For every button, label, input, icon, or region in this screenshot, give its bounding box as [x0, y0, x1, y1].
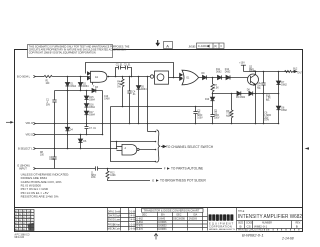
svg-text:B: B: [296, 225, 298, 229]
svg-text:l: l: [231, 216, 232, 222]
svg-text:1N3653: 1N3653: [158, 226, 167, 228]
svg-text:CORPORATION: CORPORATION: [209, 225, 232, 229]
svg-text:TO CHANNEL SELECT SWITCH: TO CHANNEL SELECT SWITCH: [166, 145, 214, 149]
svg-text:D-670: D-670: [137, 226, 144, 228]
svg-text:(2): (2): [214, 44, 217, 48]
svg-text:COPYRIGHT 1968 BY DIGITAL EQUI: COPYRIGHT 1968 BY DIGITAL EQUIPMENT CORP…: [29, 51, 96, 54]
svg-text:J.Smith: J.Smith: [113, 211, 121, 214]
svg-text:INPUT: INPUT: [19, 167, 27, 171]
svg-text:10%: 10%: [264, 120, 269, 122]
svg-text:i: i: [213, 216, 214, 222]
svg-text:i: i: [220, 216, 221, 222]
svg-text:EIA: EIA: [161, 214, 165, 217]
svg-text:2-5-68: 2-5-68: [129, 225, 136, 227]
svg-text:CD: CD: [19, 229, 23, 231]
svg-text:CD: CD: [19, 217, 23, 219]
svg-text:R.Doyle: R.Doyle: [113, 216, 122, 218]
svg-text:C408: C408: [49, 159, 55, 161]
svg-text:100K: 100K: [110, 175, 116, 177]
svg-text:D664: D664: [89, 107, 95, 109]
svg-text:DEC: DEC: [142, 215, 147, 217]
svg-text:10%: 10%: [91, 177, 96, 179]
svg-text:PRINTED CIRCUIT REV.: PRINTED CIRCUIT REV.: [238, 230, 264, 232]
svg-text:2-6-68: 2-6-68: [129, 229, 136, 231]
svg-text:D5 D662: D5 D662: [236, 97, 246, 99]
svg-text:INTENSITY AMPLIFIER W682: INTENSITY AMPLIFIER W682: [238, 214, 302, 220]
svg-text:1N645: 1N645: [158, 219, 165, 221]
svg-text:g: g: [216, 216, 219, 222]
svg-text:CD: CD: [19, 211, 23, 213]
svg-text:TRANSISTOR & DIODE CONVERSION: TRANSISTOR & DIODE CONVERSION CHART: [144, 209, 200, 213]
svg-text:D662: D662: [216, 71, 222, 73]
svg-text:2-4-68: 2-4-68: [129, 220, 136, 222]
svg-text:100V: 100V: [214, 118, 220, 120]
svg-text:TITLE: TITLE: [238, 211, 245, 213]
svg-text:5%: 5%: [117, 87, 120, 89]
svg-text:A.Cole: A.Cole: [113, 228, 121, 231]
svg-text:5%: 5%: [266, 100, 269, 102]
svg-text:B SELECT L: B SELECT L: [18, 147, 33, 151]
svg-text:BL2: BL2: [293, 69, 298, 71]
svg-text:RESISTORS ARE 1/4W, 5%: RESISTORS ARE 1/4W, 5%: [21, 195, 59, 199]
svg-text:OUT: OUT: [297, 71, 303, 75]
svg-text:TO BRIGHTNESS POT SLIDER: TO BRIGHTNESS POT SLIDER: [160, 179, 206, 183]
svg-text:DEC: DEC: [177, 215, 182, 217]
svg-text:B D-5004 L: B D-5004 L: [17, 75, 31, 79]
svg-text:MAYNARD, MASSACHUSETTS: MAYNARD, MASSACHUSETTS: [209, 228, 236, 231]
svg-text:50V: 50V: [46, 105, 51, 107]
svg-text:GH: GH: [27, 217, 31, 219]
svg-text:D664: D664: [89, 99, 95, 101]
svg-text:D662: D662: [281, 110, 287, 112]
svg-text:D-664: D-664: [137, 222, 144, 224]
svg-text:D.Lane: D.Lane: [113, 220, 121, 222]
svg-text:CS: CS: [247, 225, 251, 229]
svg-text:D-662: D-662: [137, 219, 144, 221]
svg-text:DEC3009B: DEC3009B: [173, 219, 185, 221]
svg-text:C3 .01: C3 .01: [124, 65, 131, 67]
svg-text:B-W682-0-1: B-W682-0-1: [242, 233, 264, 238]
svg-text:d: d: [209, 216, 212, 222]
svg-text:5%: 5%: [257, 88, 260, 90]
svg-text:B: B: [240, 225, 242, 229]
svg-text:VR1 D: VR1 D: [26, 121, 34, 125]
svg-text:EIA: EIA: [194, 214, 198, 217]
svg-text:C7 .01: C7 .01: [89, 128, 96, 130]
svg-text:100V: 100V: [197, 118, 203, 120]
svg-text:GH: GH: [27, 211, 31, 213]
svg-text:1.5K: 1.5K: [214, 88, 219, 90]
svg-text:CD: CD: [19, 223, 23, 225]
svg-text:F: F: [164, 167, 166, 171]
svg-text:E: E: [152, 179, 154, 183]
svg-text:D664: D664: [83, 86, 89, 88]
svg-text:1N3653: 1N3653: [158, 229, 167, 231]
svg-text:A: A: [166, 43, 169, 48]
svg-text:C408: C408: [104, 98, 110, 100]
svg-text:W.Hart: W.Hart: [113, 224, 120, 227]
svg-text:W682-0-1: W682-0-1: [254, 225, 268, 229]
svg-text:D664: D664: [71, 86, 77, 88]
svg-text:1N3606: 1N3606: [158, 222, 167, 224]
svg-text:MFG 100: MFG 100: [15, 237, 25, 239]
svg-text:TO PARTS AUTOLINE: TO PARTS AUTOLINE: [171, 167, 203, 171]
svg-text:2-14-68: 2-14-68: [281, 237, 294, 241]
svg-text:C-1004: C-1004: [198, 44, 208, 48]
svg-text:2-4-68: 2-4-68: [129, 216, 136, 218]
svg-text:2-1-68: 2-1-68: [129, 212, 136, 214]
svg-text:JM185: JM185: [189, 47, 197, 49]
svg-text:3009B: 3009B: [249, 71, 256, 73]
svg-text:D662: D662: [281, 84, 287, 86]
svg-text:D10: D10: [205, 99, 210, 101]
svg-text:2N3009: 2N3009: [189, 219, 198, 221]
svg-text:5%: 5%: [226, 116, 229, 118]
svg-text:D-672: D-672: [137, 229, 144, 231]
svg-text:D664: D664: [89, 115, 95, 117]
svg-text:VR2 D: VR2 D: [26, 133, 34, 137]
svg-text:D662: D662: [225, 71, 231, 73]
svg-text:+10V: +10V: [239, 63, 245, 65]
svg-text:D664: D664: [141, 89, 147, 91]
svg-text:C2 .01: C2 .01: [116, 65, 123, 67]
